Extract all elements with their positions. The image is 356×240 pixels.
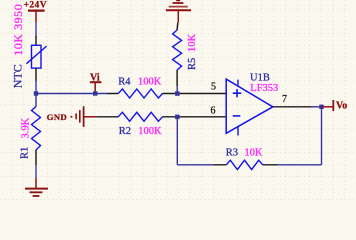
ground bottom left: [25, 178, 48, 196]
op-amp U1B: [226, 79, 273, 135]
svg-text:R1: R1: [20, 147, 31, 159]
feedback wire bottom right segment: [278, 164, 322, 166]
node B junction (R5 to pin5 line): [175, 91, 180, 96]
node C junction (feedback tap on pin6 line): [175, 115, 180, 120]
svg-text:10K: 10K: [244, 147, 263, 158]
wire +24V to NTC: [35, 23, 37, 36]
power port GND: [47, 106, 97, 127]
feedback wire from node C down: [176, 117, 178, 165]
svg-text:R5: R5: [187, 58, 198, 70]
svg-text:Vo: Vo: [336, 101, 347, 112]
wire R5 to node B: [176, 86, 178, 94]
svg-text:R4: R4: [118, 77, 131, 88]
svg-text:10K 3950: 10K 3950: [11, 4, 25, 56]
wire node A to Vi node: [36, 93, 107, 95]
wire NTC to node A: [35, 81, 37, 94]
resistor R3 pins: [214, 164, 278, 166]
svg-text:NTC: NTC: [10, 64, 24, 88]
feedback wire bottom left segment: [177, 164, 213, 166]
resistor R3: [226, 160, 262, 169]
NTC pin top: [35, 35, 37, 45]
svg-text:GND: GND: [47, 112, 67, 122]
net label Vo: [322, 100, 348, 112]
svg-text:6: 6: [211, 106, 216, 117]
ground top (inverted): [166, 1, 191, 23]
resistor R1: [32, 107, 41, 151]
svg-text:3.9K: 3.9K: [20, 117, 31, 138]
wire output to node D: [312, 106, 322, 108]
svg-text:LF353: LF353: [250, 83, 278, 94]
svg-text:+24V: +24V: [24, 0, 47, 10]
svg-text:5: 5: [211, 81, 216, 92]
resistor R5 pin top: [176, 23, 179, 31]
resistor R4: [118, 89, 162, 98]
feedback wire up to node D: [321, 107, 323, 165]
net label Vi: [90, 73, 102, 92]
node D junction (output): [319, 105, 323, 109]
resistor R2 pins: [97, 116, 227, 118]
svg-text:R2: R2: [119, 126, 131, 137]
node A junction: [34, 91, 38, 95]
svg-text:10K: 10K: [187, 34, 198, 53]
svg-text:U1B: U1B: [250, 72, 270, 83]
resistor R2: [118, 112, 162, 121]
wire R1 to ground: [35, 165, 37, 178]
svg-text:100K: 100K: [138, 77, 162, 88]
resistor R1 pin bottom: [35, 150, 37, 165]
thermistor NTC: [26, 45, 46, 68]
svg-text:100K: 100K: [138, 126, 162, 137]
node Vi junction: [93, 91, 97, 95]
svg-text:R3: R3: [226, 147, 238, 158]
resistor R4 pins: [107, 93, 226, 95]
resistor R5: [173, 30, 182, 70]
power port +24V: [24, 0, 47, 22]
resistor R5 pin bottom: [176, 70, 178, 86]
wire node A to R1: [35, 94, 37, 107]
op-amp output pin 7: [273, 106, 312, 108]
svg-text:7: 7: [282, 94, 287, 105]
NTC pin bottom: [35, 68, 37, 81]
